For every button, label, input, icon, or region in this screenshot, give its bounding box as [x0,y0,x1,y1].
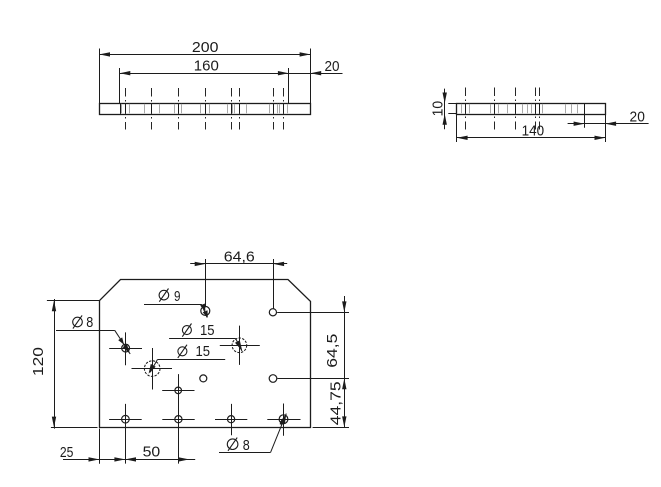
svg-text:20: 20 [630,109,645,126]
svg-text:160: 160 [194,58,219,75]
svg-text:120: 120 [30,347,47,376]
svg-text:44,75: 44,75 [328,381,345,425]
svg-text:10: 10 [429,101,446,117]
svg-text:50: 50 [143,444,161,461]
svg-text:200: 200 [192,39,219,56]
svg-text:9: 9 [174,288,181,305]
svg-text:8: 8 [243,437,250,454]
svg-text:64,6: 64,6 [224,248,255,265]
svg-text:20: 20 [325,58,340,75]
svg-text:8: 8 [86,314,93,331]
svg-text:15: 15 [195,343,210,360]
svg-text:64,5: 64,5 [324,334,341,368]
svg-text:140: 140 [522,123,545,140]
svg-text:15: 15 [200,322,215,339]
svg-text:25: 25 [60,444,74,461]
